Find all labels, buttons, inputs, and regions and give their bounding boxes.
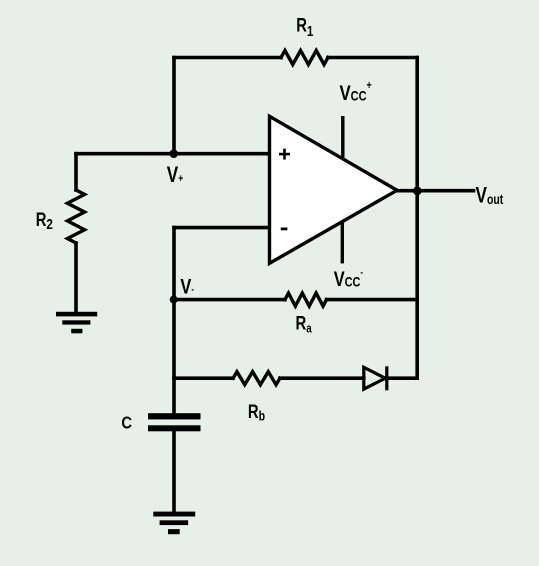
node V- junction dot [170,296,178,304]
Vcc+ supply lead [341,116,344,159]
wire Ra right segment [327,298,418,302]
wire diode cathode to right bus [387,376,417,380]
capacitor C bottom plate [148,425,201,431]
node V+ junction dot [169,149,178,158]
resistor Rb [233,372,280,385]
wire top-left vertical (V+ node to top wire) [172,58,176,154]
wire top horizontal left of R1 [174,56,281,60]
wire V+ horizontal [76,152,270,156]
wire Rb to diode [280,376,364,380]
wire output horizontal [397,189,474,193]
op-amp minus input marking [281,228,288,231]
wire V- node down to capacitor [172,300,176,414]
wire minus-input horizontal [174,226,270,230]
resistor R2 [67,190,84,243]
op-amp U1 [270,116,398,263]
diode D1 [364,366,387,390]
resistor Ra [285,293,327,306]
wire Rb left segment [174,376,233,380]
wire right vertical bus [415,58,419,379]
node Vout junction dot [413,187,422,196]
op-amp plus input marking [279,149,290,160]
ground (C) [153,512,195,535]
wire R2 bottom lead [74,243,78,312]
resistor R1 [281,51,328,65]
wire Ra left segment [174,298,285,302]
wire R2 top lead [74,154,78,190]
ground (R2) [56,312,97,334]
capacitor C top plate [148,413,201,419]
svg-text:C: C [121,413,132,433]
wire top horizontal right of R1 [328,56,417,60]
wire minus-input vertical to V- node [172,228,176,300]
Vcc- supply lead [341,221,344,263]
wire capacitor bottom lead [172,431,176,511]
